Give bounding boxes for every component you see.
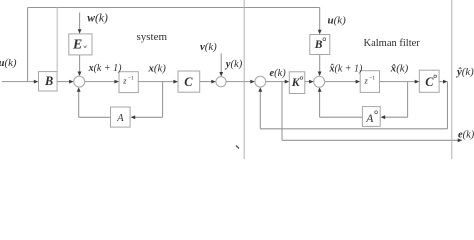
arrowhead into z-1	[114, 80, 119, 84]
wire u branch vertical	[27, 8, 29, 82]
svg-text:B: B	[44, 74, 53, 88]
wire A0 tap down	[407, 82, 409, 118]
arrowhead A loop into sum1 bottom	[77, 87, 81, 92]
block C	[178, 71, 200, 92]
page rule between system and Kalman filter	[243, 0, 245, 159]
svg-text:ŷ(k): ŷ(k)	[455, 66, 474, 78]
wire C to sum-y	[200, 81, 213, 83]
svg-text:u(k): u(k)	[328, 15, 347, 27]
svg-text:y(k): y(k)	[224, 59, 243, 70]
wire A feedback left segment	[79, 116, 111, 118]
wire top u line to Kalman filter	[28, 7, 320, 9]
svg-text:−1: −1	[128, 76, 134, 82]
block B0	[310, 35, 330, 55]
wire A feedback tap down	[162, 82, 164, 118]
arrowhead into block A0	[381, 115, 386, 119]
wire top corner down to B0	[319, 8, 321, 31]
wire yhat feedback bottom	[260, 128, 447, 130]
block z-1 kalman	[360, 71, 379, 93]
svg-text:v(k): v(k)	[200, 41, 217, 53]
summing junction sum1	[74, 76, 85, 87]
wire z-1 to C	[138, 81, 174, 83]
wire B0 to sum2	[319, 55, 321, 74]
wire sum-e to K0	[266, 81, 286, 83]
block A	[111, 107, 131, 127]
wire B to sum1	[57, 81, 71, 83]
arrowhead u(k) into B0	[318, 30, 322, 35]
superscript circle of A0	[375, 111, 378, 114]
svg-text:K: K	[291, 75, 301, 89]
arrowhead e(k) output	[458, 138, 463, 142]
arrowhead yhat output	[443, 80, 448, 84]
superscript circle of K0	[300, 77, 303, 80]
wire sum1 to z-1	[85, 81, 116, 83]
svg-text:system: system	[137, 31, 168, 43]
superscript circle of C0	[434, 75, 437, 78]
svg-text:−1: −1	[369, 76, 375, 82]
arrowhead into sum2	[309, 80, 314, 84]
wire sum2 to z-1 kalman	[325, 81, 357, 83]
block B	[39, 72, 58, 91]
svg-text:Kalman filter: Kalman filter	[364, 38, 421, 49]
svg-text:A: A	[116, 113, 124, 124]
svg-text:x(k): x(k)	[148, 63, 167, 75]
wire yhat feedback up into sum-e	[259, 91, 261, 129]
svg-text:x̂(k + 1): x̂(k + 1)	[329, 63, 364, 74]
wire w(k) arrow line	[79, 13, 81, 31]
svg-text:x̂(k): x̂(k)	[390, 63, 409, 75]
wire A0 left segment	[320, 116, 363, 118]
arrowhead B into sum1	[69, 80, 74, 84]
svg-text:w(k): w(k)	[87, 12, 108, 25]
arrowhead A0 loop into sum2 bottom	[318, 87, 322, 92]
wire A0 right segment	[384, 116, 407, 118]
block C0	[419, 70, 439, 92]
svg-text:e(k): e(k)	[458, 130, 474, 141]
block K0	[289, 72, 305, 94]
wire e branch bottom to output	[282, 139, 458, 141]
arrowhead yhat loop into sum-e bottom	[258, 87, 262, 92]
arrowhead into C0	[415, 80, 420, 84]
svg-text:u(k): u(k)	[0, 57, 17, 69]
svg-text:C: C	[425, 75, 434, 89]
summing junction sum-e	[255, 76, 266, 87]
svg-text:A: A	[365, 112, 374, 125]
arrowhead B0 into sum2	[318, 72, 322, 77]
wire A feedback right segment	[134, 116, 162, 118]
wire z-1k to C0	[380, 81, 416, 83]
svg-text:x(k + 1): x(k + 1)	[88, 63, 123, 74]
arrowhead into C	[173, 80, 178, 84]
wire stub at x=57	[56, 8, 58, 72]
wire yhat feedback down	[447, 82, 449, 129]
block Ew	[69, 34, 92, 55]
block z-1 system	[119, 72, 138, 93]
stray tick mark	[236, 146, 239, 149]
summing junction sum2	[314, 76, 325, 87]
svg-text:B: B	[314, 39, 323, 51]
arrowhead v(k) into sum-y	[219, 72, 223, 77]
arrowhead into sum-e	[250, 80, 255, 84]
svg-text:C: C	[184, 75, 193, 89]
arrowhead into block A	[131, 115, 136, 119]
arrowhead into B	[34, 80, 39, 84]
wire u(k) input	[2, 81, 34, 83]
summing junction sum-y	[216, 77, 226, 87]
wire A feedback up into sum1	[78, 91, 80, 117]
svg-text:e(k): e(k)	[270, 68, 287, 79]
wire K0 to sum2	[305, 81, 310, 83]
wire C0 to yhat output	[439, 81, 444, 83]
page rule right edge	[451, 0, 453, 159]
svg-text:E: E	[72, 36, 82, 51]
wire v(k) arrow line	[220, 53, 222, 73]
svg-text:z: z	[122, 76, 127, 85]
wire Ew to sum1	[79, 55, 81, 73]
wire e branch down	[281, 82, 283, 141]
arrowhead Ew into sum1	[78, 72, 82, 77]
arrowhead into z-1 kalman	[356, 80, 361, 84]
wire sum-y to sum-e	[226, 81, 251, 83]
block A0	[362, 107, 380, 127]
arrowhead w(k) into Ew	[78, 29, 82, 34]
superscript circle of B0	[323, 38, 326, 41]
wire A0 up into sum2	[319, 91, 321, 117]
svg-text:z: z	[364, 76, 369, 85]
arrowhead into K0	[285, 80, 290, 84]
arrowhead into sum-y	[211, 80, 216, 84]
svg-text:w: w	[83, 44, 87, 50]
